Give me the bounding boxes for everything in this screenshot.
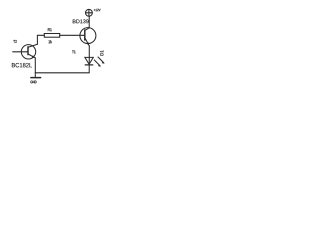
label T1 (72, 50, 76, 53)
wire bottom rail (35, 72, 89, 74)
wire R1 to T1 base (60, 34, 85, 36)
LED D1 (85, 57, 105, 67)
label D1 (100, 50, 103, 55)
transistor T2 (21, 44, 37, 59)
wire T2 base input (13, 51, 28, 53)
label BC182L (12, 63, 32, 67)
transistor T1 (80, 28, 96, 46)
ground (31, 73, 41, 78)
wire T1 emitter to LED to bottom rail (88, 46, 90, 73)
label T2 (13, 40, 17, 43)
label BD139 (73, 19, 89, 23)
label R1 (48, 28, 52, 31)
label +12V (94, 9, 101, 11)
power terminal +12V (86, 9, 93, 16)
label GND (30, 81, 36, 84)
wire T2 emitter down (34, 58, 36, 73)
wire T2 collector to R1 (37, 35, 44, 44)
wire power to T1 collector (88, 16, 90, 28)
resistor R1 (44, 34, 59, 38)
label 1k (49, 40, 52, 43)
